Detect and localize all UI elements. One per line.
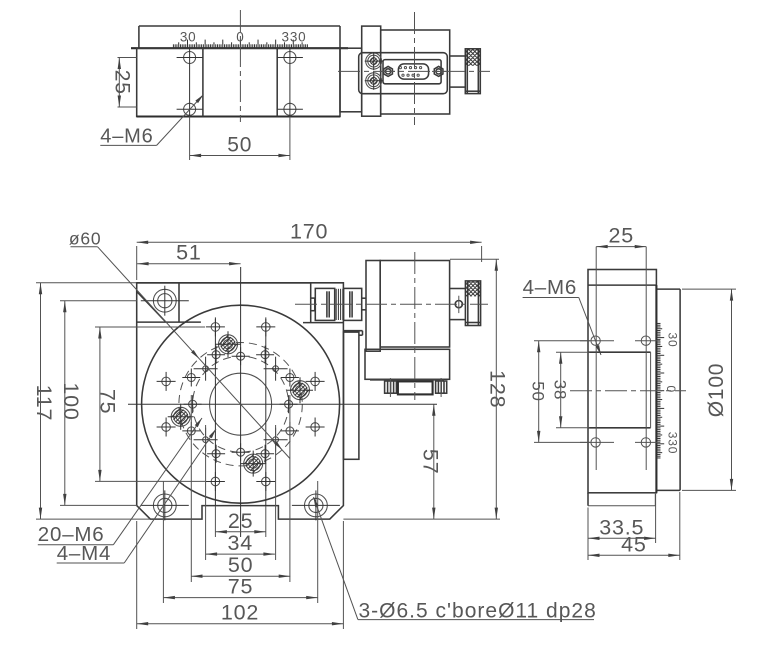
svg-text:75: 75	[228, 575, 254, 599]
svg-text:128: 128	[485, 370, 509, 408]
svg-text:45: 45	[621, 532, 647, 556]
svg-text:330: 330	[665, 432, 679, 454]
svg-text:102: 102	[221, 601, 259, 625]
svg-text:51: 51	[176, 241, 202, 265]
svg-text:50: 50	[529, 381, 548, 402]
svg-text:117: 117	[32, 385, 56, 422]
svg-text:25: 25	[608, 224, 634, 248]
svg-text:34: 34	[227, 531, 253, 555]
svg-text:0: 0	[664, 386, 678, 393]
svg-text:3-Ø6.5 c'boreØ11 dp28: 3-Ø6.5 c'boreØ11 dp28	[359, 599, 597, 622]
svg-text:Ø100: Ø100	[705, 363, 728, 418]
svg-text:ø60: ø60	[69, 229, 102, 249]
svg-text:4–M6: 4–M6	[100, 125, 153, 147]
svg-text:57: 57	[418, 449, 442, 475]
svg-text:4–M4: 4–M4	[57, 542, 111, 565]
svg-text:50: 50	[227, 134, 252, 157]
svg-text:4–M6: 4–M6	[523, 276, 577, 299]
svg-text:25: 25	[228, 509, 254, 533]
svg-text:30: 30	[665, 333, 679, 348]
svg-text:100: 100	[59, 382, 83, 420]
svg-text:25: 25	[111, 70, 134, 95]
svg-text:38: 38	[551, 380, 570, 401]
svg-text:50: 50	[228, 553, 254, 577]
svg-text:30: 30	[180, 29, 197, 44]
svg-text:75: 75	[95, 389, 119, 415]
svg-text:170: 170	[290, 219, 328, 243]
svg-text:330: 330	[282, 29, 307, 44]
